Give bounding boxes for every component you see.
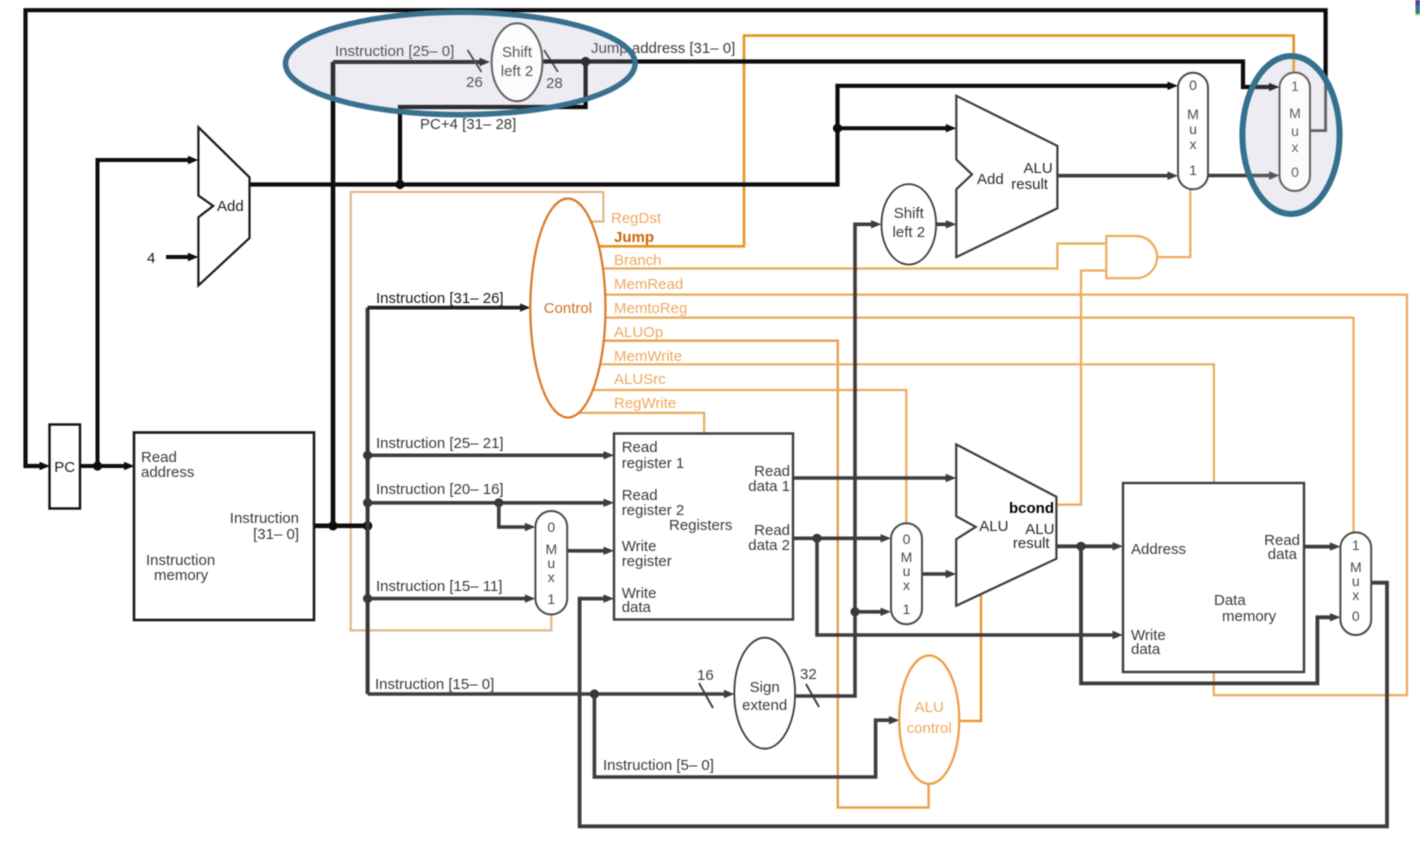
arrow into ALU input 1	[946, 474, 957, 482]
svg-text:Instruction [15– 11]: Instruction [15– 11]	[376, 578, 502, 595]
node PC+4 [31-28] tap	[395, 180, 404, 189]
svg-text:memory: memory	[154, 567, 209, 584]
svg-text:PC+4 [31– 28]: PC+4 [31– 28]	[420, 116, 516, 133]
node [25-21] tap	[363, 451, 372, 460]
arrow into branch mux input 1	[1168, 172, 1179, 180]
arrow into branch shift left 2	[871, 220, 882, 228]
svg-text:1: 1	[547, 591, 555, 607]
svg-text:x: x	[1352, 587, 1359, 603]
svg-text:0: 0	[903, 531, 911, 547]
svg-text:M: M	[1187, 106, 1199, 122]
arrow into Registers Write data	[604, 594, 615, 602]
wire AND output to branch mux select	[1157, 190, 1191, 257]
wire MemRead: Control to data memory bottom	[605, 295, 1407, 695]
arrow into write-back mux input 0	[1330, 613, 1341, 621]
svg-text:Instruction: Instruction	[230, 510, 299, 527]
arrow into Add input 2	[188, 253, 199, 261]
highlight backdrop ellipse (jump mux region)	[1242, 56, 1339, 214]
svg-text:0: 0	[547, 519, 555, 535]
svg-text:1: 1	[1189, 162, 1197, 178]
wire jump mux output (thin segment)	[1310, 82, 1325, 131]
arrow into Read register 1	[604, 451, 615, 459]
instruction memory	[134, 433, 314, 621]
wire PC output to instruction memory	[80, 464, 126, 468]
arrow into branch Add input 2	[946, 220, 957, 228]
wire write-back mux output to Registers Write data	[580, 583, 1387, 827]
node [15-11] tap	[363, 594, 372, 603]
mux write back	[1340, 532, 1371, 635]
slide edge color strip	[1416, 0, 1420, 6]
highlight backdrop ellipse (jump field region)	[286, 12, 636, 114]
arrow into Write register	[604, 547, 615, 555]
svg-text:register 1: register 1	[622, 455, 685, 472]
node ALU result tap	[1076, 542, 1085, 551]
svg-text:1: 1	[903, 601, 911, 617]
adder Add (branch target)	[956, 96, 1057, 257]
wire branch shift left 2 output to branch Add input 2	[936, 223, 947, 227]
node Read data 2 tap	[812, 534, 821, 543]
wire sign extend tap to ALU source mux input 1	[855, 610, 882, 614]
svg-text:extend: extend	[742, 697, 787, 714]
wire ALU result around data memory to write-back mux input 0	[1081, 546, 1331, 683]
svg-text:MemtoReg: MemtoReg	[614, 300, 687, 317]
wire MemWrite: Control to data memory top	[600, 364, 1214, 484]
node PC output junction	[93, 461, 102, 470]
shift left 2 (branch)	[882, 184, 937, 264]
svg-text:0: 0	[1189, 77, 1197, 93]
arrow into branch mux input 0	[1168, 82, 1179, 90]
adder Add (PC+4)	[198, 127, 249, 285]
wire PC+4 to branch Add input 1	[838, 126, 947, 130]
svg-text:Branch: Branch	[614, 252, 662, 269]
arrow into jump mux input 1	[1269, 83, 1280, 91]
svg-text:memory: memory	[1222, 608, 1277, 625]
svg-text:address: address	[141, 464, 194, 481]
svg-text:Instruction [31– 26]: Instruction [31– 26]	[376, 290, 504, 307]
wire Instruction [5-0] to ALU control	[594, 694, 890, 777]
wire branch mux output to jump mux input 0	[1208, 174, 1270, 178]
wire PC to Add input 1	[98, 160, 190, 466]
data memory	[1123, 483, 1304, 672]
svg-text:Instruction [25– 21]: Instruction [25– 21]	[376, 435, 504, 452]
bus slash 28	[544, 50, 558, 72]
svg-text:Sign: Sign	[750, 679, 780, 696]
arrow into Address	[1113, 542, 1124, 550]
wire sign extend output to shift left 2 (branch)	[795, 224, 872, 696]
node jump address junction	[581, 57, 590, 66]
wire RegWrite: Control to Registers	[579, 413, 704, 435]
wire ALUOp: Control to ALU control	[604, 341, 929, 808]
svg-text:ALUSrc: ALUSrc	[614, 371, 666, 388]
svg-text:[31– 0]: [31– 0]	[253, 526, 299, 543]
wire constant 4 to Add input 2	[166, 255, 189, 259]
wire Instruction [20-16] to Read register 2	[368, 501, 605, 505]
svg-text:32: 32	[800, 666, 817, 683]
arrow into write-back mux input 1	[1330, 542, 1341, 550]
node rt field tap	[494, 498, 503, 507]
arrow into write-register mux input 1	[525, 594, 536, 602]
svg-text:ALUOp: ALUOp	[614, 324, 663, 341]
wire ALU result to data memory Address	[1056, 544, 1113, 548]
control unit	[530, 199, 605, 418]
wire bcond: ALU bcond output to AND gate input 2	[1056, 271, 1105, 505]
wire PC+4 [31-28] to jump address join	[400, 62, 586, 185]
arrow into shift left 2	[480, 58, 491, 66]
wire write-register mux output	[567, 549, 604, 553]
arrow into Read address	[124, 462, 135, 470]
wire Instruction [31-26] to Control	[368, 306, 521, 310]
svg-text:RegDst: RegDst	[611, 210, 662, 227]
arrow into PC	[40, 462, 51, 470]
wire Read data 2 to ALU source mux input 0	[793, 536, 882, 540]
mux ALU source	[891, 523, 922, 624]
wire ALU source mux output to ALU input 2	[922, 572, 947, 576]
svg-text:Instruction [15– 0]: Instruction [15– 0]	[375, 676, 494, 693]
arrow into write-register mux input 0	[525, 523, 536, 531]
highlight wash (jump mux region)	[1242, 56, 1339, 214]
svg-text:Registers: Registers	[669, 517, 732, 534]
wire Instruction [25-21] to Read register 1	[368, 453, 605, 457]
shift left 2 (jump)	[492, 23, 543, 101]
bus slash 16	[699, 683, 713, 708]
svg-text:0: 0	[1352, 608, 1360, 624]
svg-text:Add: Add	[217, 198, 244, 215]
node on distribution bus	[363, 521, 372, 530]
node branch adder tap	[833, 124, 842, 133]
arrow into ALU input 2	[946, 570, 957, 578]
svg-text:Jump: Jump	[614, 229, 654, 246]
arrow into data memory Write data	[1113, 631, 1124, 639]
node sign extend tap	[850, 607, 859, 616]
svg-text:control: control	[907, 720, 952, 737]
svg-text:data: data	[1268, 546, 1298, 563]
wire ALU control output to ALU	[959, 594, 981, 721]
wire Read data 2 to data memory Write data	[817, 538, 1114, 635]
wire branch Add output to branch mux input 1	[1057, 174, 1168, 178]
wire instruction field distribution bus	[366, 308, 370, 694]
svg-text:ALU: ALU	[979, 518, 1008, 535]
arrow into ALU source mux input 1	[881, 608, 892, 616]
svg-text:Data: Data	[1214, 592, 1246, 609]
bus slash 26	[468, 50, 482, 72]
wire MemtoReg: Control to write-back mux select	[605, 318, 1354, 534]
svg-text:4: 4	[147, 250, 155, 267]
svg-text:bcond: bcond	[1009, 500, 1054, 517]
node [20-16] tap	[363, 498, 372, 507]
svg-text:ALU: ALU	[915, 699, 944, 716]
svg-text:MemRead: MemRead	[614, 276, 683, 293]
svg-text:data 1: data 1	[748, 478, 790, 495]
arrow into branch Add input 1	[946, 124, 957, 132]
wire jump address [31-0] to jump mux input 1	[543, 62, 1271, 88]
svg-text:Add: Add	[977, 171, 1004, 188]
svg-text:ALU: ALU	[1024, 160, 1053, 177]
svg-text:Instruction [5– 0]: Instruction [5– 0]	[603, 757, 714, 774]
svg-text:16: 16	[697, 667, 714, 684]
wire Instruction [15-11] to write-register mux input 1	[368, 597, 526, 601]
mux jump	[1280, 73, 1311, 192]
arrow into Add input 1	[188, 156, 199, 164]
svg-text:RegWrite: RegWrite	[614, 395, 676, 412]
svg-text:u: u	[1189, 121, 1197, 137]
svg-text:result: result	[1011, 176, 1049, 193]
sign extend	[734, 638, 795, 749]
svg-text:Instruction [20– 16]: Instruction [20– 16]	[376, 481, 504, 498]
wire data memory Read data to write-back mux input 1	[1304, 545, 1331, 549]
registers	[614, 434, 793, 620]
svg-text:Address: Address	[1131, 541, 1186, 558]
arrow into Control	[520, 303, 531, 311]
svg-text:MemWrite: MemWrite	[614, 348, 682, 365]
svg-text:x: x	[548, 569, 555, 585]
svg-text:Read: Read	[622, 439, 658, 456]
register PC	[50, 425, 81, 509]
svg-text:data 2: data 2	[748, 537, 790, 554]
svg-text:left 2: left 2	[893, 224, 926, 241]
arrow into jump mux input 0	[1269, 171, 1280, 179]
svg-text:PC: PC	[54, 459, 75, 476]
wire RegDst: Control to write-register mux select	[351, 192, 604, 630]
svg-text:result: result	[1013, 535, 1051, 552]
annotation ellipse (jump field region)	[286, 12, 636, 114]
wire PC+4: Add output to branch mux input 0	[250, 86, 1169, 185]
wire Instruction [25-0] to shift left 2	[333, 60, 480, 64]
wire ALUSrc: Control to ALU source mux select	[593, 390, 906, 525]
wire instruction bus vertical	[331, 62, 336, 526]
mux write register	[535, 511, 567, 615]
ALU control	[899, 656, 959, 784]
arrow into Read register 2	[604, 499, 615, 507]
wire Read data 1 to ALU input 1	[793, 476, 947, 480]
arrow into sign extend	[724, 690, 735, 698]
wire Branch: Control to AND gate input 1	[603, 244, 1105, 269]
svg-text:1: 1	[1352, 537, 1360, 553]
mux branch	[1178, 73, 1208, 190]
arrow into ALU control	[889, 716, 900, 724]
node [5-0] tap	[590, 689, 599, 698]
ALU	[956, 444, 1056, 605]
wire Instruction [15-0] to sign extend	[368, 692, 725, 696]
annotation ellipse (jump mux region)	[1242, 56, 1339, 214]
svg-text:x: x	[903, 577, 910, 593]
highlight wash (jump field region)	[286, 12, 636, 114]
arrow into ALU source mux input 0	[881, 534, 892, 542]
svg-text:data: data	[622, 599, 652, 616]
bus slash 32	[806, 684, 819, 707]
svg-text:Shift: Shift	[894, 205, 925, 222]
wire Jump: Control to jump mux select	[598, 36, 1294, 247]
wire PC feedback loop: jump mux output around top to PC	[26, 10, 1326, 466]
AND gate (branch)	[1106, 236, 1157, 278]
wire instruction memory output	[314, 523, 368, 528]
svg-text:x: x	[1190, 136, 1197, 152]
svg-text:data: data	[1131, 641, 1161, 658]
svg-text:Control: Control	[544, 300, 592, 317]
wire rt field to write-register mux input 0	[499, 503, 526, 527]
node on instruction bus	[328, 521, 337, 530]
svg-text:register: register	[622, 553, 672, 570]
